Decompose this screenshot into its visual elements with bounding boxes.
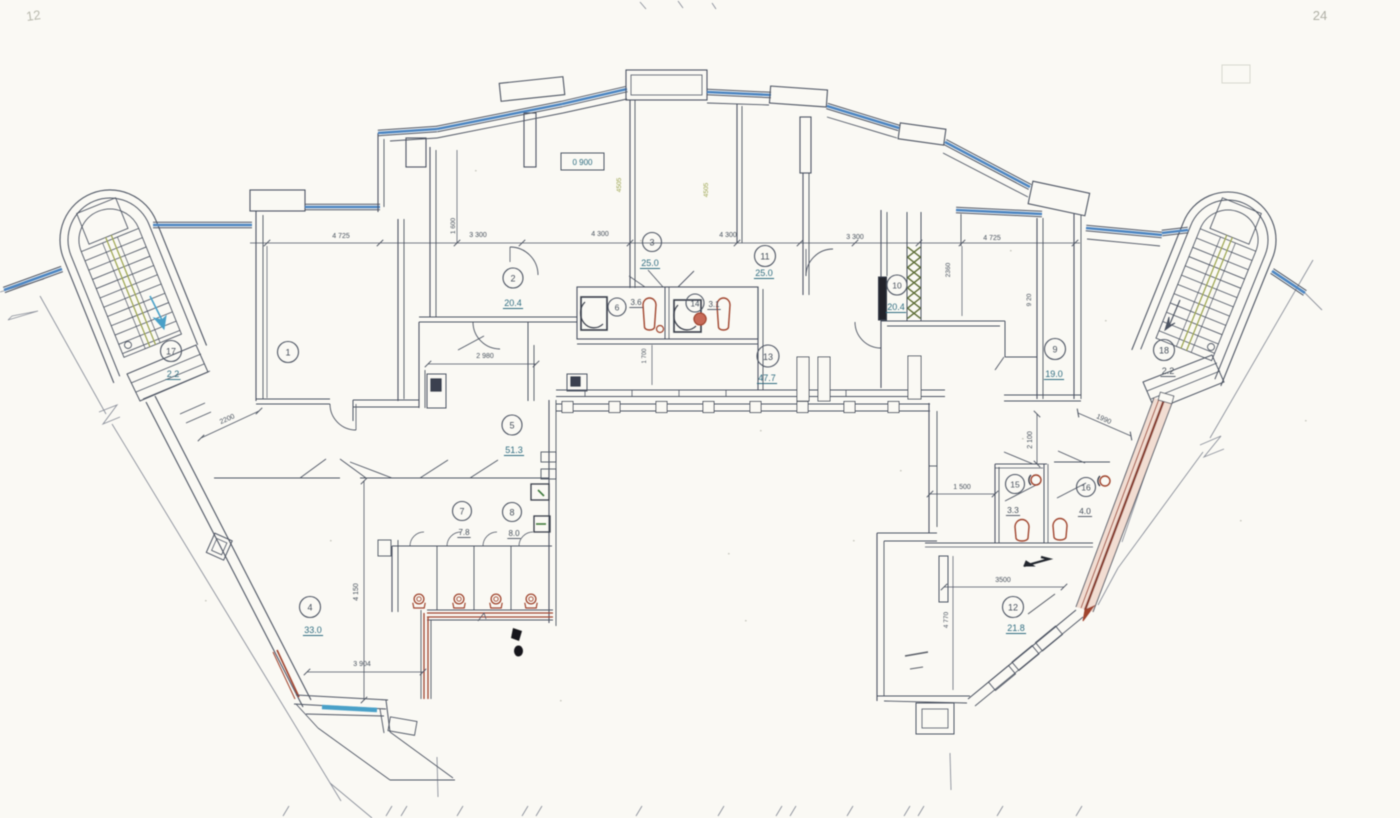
pencil water marks room 12 [905,652,928,656]
terrace lower line [330,783,372,818]
balcony box right slope 1 [769,86,827,107]
small stub right wing wall [929,465,937,467]
windows on diagonal wall [988,665,1015,690]
room circle 12 [1003,597,1024,618]
dim 2100 vertical [1036,414,1038,464]
blue band right of right stair [1271,273,1304,295]
right wing bottom wall [877,695,970,697]
svg-text:4 725: 4 725 [332,233,350,240]
roof slope right lower [944,144,1029,189]
svg-text:25.0: 25.0 [755,268,773,278]
leader below right porch [950,753,951,790]
corridor mullions lower band [562,402,573,413]
wall x432 [429,147,431,317]
svg-text:15: 15 [1010,480,1020,490]
room circle 8 [503,503,522,522]
svg-text:13: 13 [763,352,773,362]
left stair direction arrow [150,296,162,320]
pier rectangle left slope [406,138,426,167]
svg-text:3: 3 [649,238,654,248]
corridor tall pier pair [797,357,809,401]
svg-text:6: 6 [615,303,620,313]
svg-text:3 300: 3 300 [846,234,864,241]
dimension 2200 at walkway [201,411,259,438]
vertical dim 4150 [363,481,365,700]
box top-right [1028,181,1090,216]
room 4 top walls [214,477,340,479]
svg-text:33.0: 33.0 [304,625,322,635]
svg-text:20.4: 20.4 [887,302,905,312]
svg-text:3500: 3500 [995,577,1011,584]
svg-text:2.2: 2.2 [1162,366,1175,376]
svg-text:4 300: 4 300 [591,231,609,238]
toilet fixture [526,594,536,604]
room circle 3 [643,233,662,252]
wall x917 [906,212,908,321]
peak box [626,70,707,100]
svg-text:20.4: 20.4 [504,298,522,308]
balcony box right slope 2 [898,123,946,145]
terrace step box [388,717,417,735]
svg-text:8.0: 8.0 [508,529,520,538]
roof step up at x379 [377,133,379,212]
svg-text:14: 14 [691,300,700,309]
right walkway wall lines [1076,398,1154,607]
svg-text:16: 16 [1081,483,1091,493]
black symbol blob 1 [511,628,522,641]
bottom porch [916,703,954,734]
right stair direction arrow [1169,300,1180,326]
room circle 18 [1154,340,1175,361]
tilted box on wing wall [206,533,232,560]
black shaft fill [879,277,887,320]
corridor upper wall [556,389,945,391]
wall room1-room2 divider x400 [397,219,399,401]
door arc room 1 [330,404,356,430]
door arc room 10 lower [855,322,881,348]
stall door arcs [410,532,424,546]
svg-text:47.7: 47.7 [758,373,776,383]
svg-text:7: 7 [459,507,464,517]
right property line [1210,260,1313,438]
blue window strip [322,707,377,710]
room9 bottom wall [1004,394,1081,396]
wall x963 stub [960,214,962,246]
wall below room1 y400 [353,399,419,401]
door arc room 11 [806,249,833,276]
green cross hatch ventilation shaft [908,247,921,257]
small red fixture room 6 [657,326,664,333]
svg-text:4 770: 4 770 [943,611,950,628]
blue band stair-link left [153,227,252,229]
bottom dimension ticks [283,806,289,816]
svg-text:4505: 4505 [616,177,623,192]
toilet 15 [1015,520,1029,542]
room circle 5 [502,415,522,435]
arrow break far left [8,311,38,320]
dim 2980 [428,363,536,365]
short parallel line near right walkway [1122,402,1170,542]
svg-text:3 300: 3 300 [469,232,487,239]
svg-text:9 20: 9 20 [1026,293,1033,306]
door marks above bathroom [648,270,663,287]
terrace bottom wall with blue window [296,695,388,700]
svg-text:4.0: 4.0 [1079,506,1091,516]
wall below room2 x419 [418,322,420,408]
break mark on right property line [1200,436,1224,457]
svg-text:4 300: 4 300 [719,232,737,239]
step at room9 bottom left [1003,357,1005,395]
svg-text:21.8: 21.8 [1007,623,1025,633]
elevation box 0.900 [561,153,604,170]
pier x801 [800,117,811,173]
wc top wall 15 [995,463,1047,465]
roof slope right with blue [826,109,898,131]
toilet room 6 red [643,298,656,330]
tick on red wall [478,613,486,621]
duct box B4 left [427,374,446,408]
main dimension line [250,242,1080,244]
red vertical corridor wall [420,610,422,699]
svg-text:19.0: 19.0 [1045,369,1063,379]
roof band right end [1086,231,1162,238]
right wing step wall [877,532,937,534]
room circle 17 [161,341,182,362]
wall right of bathroom [757,287,759,390]
svg-text:5: 5 [509,421,514,431]
pilaster in room 12 [939,556,948,602]
wc doors diagonals [1004,452,1033,464]
room 12 top wall [925,542,1093,544]
left property line [40,296,106,414]
rooms 7-8 top walls [408,477,549,479]
svg-text:3.3: 3.3 [1007,505,1019,515]
toilet 16 [1053,519,1067,540]
stall left stub [378,540,391,556]
sink room 6 [581,297,607,330]
wc top wall 16 [1054,461,1110,463]
wall corner to room9 [1004,321,1006,357]
door arc room 2 top [510,247,538,275]
sink room 14 [674,300,701,332]
svg-text:17: 17 [166,347,176,357]
appliance boxes [531,484,549,500]
room 1 bottom wall [256,398,330,400]
wc divider [1043,464,1045,543]
room circle 9 [1045,339,1066,360]
room circle 13 [757,345,779,367]
svg-text:1 700: 1 700 [642,348,648,364]
right walkway band pink fill [1076,398,1172,612]
svg-text:4505: 4505 [703,182,710,197]
wall x805 lower [802,173,804,295]
wall x530 room5 left closet [527,322,529,401]
corridor pier right [908,356,921,399]
roof slope left with blue [378,132,437,136]
svg-text:1 600: 1 600 [450,217,457,234]
stall block outline [392,545,552,547]
dim 3500 [944,586,1064,588]
red sink 16 [1100,476,1110,486]
svg-text:25.0: 25.0 [641,258,659,268]
svg-text:3.6: 3.6 [630,298,642,307]
wall x1040 room9 left [1036,218,1038,399]
room 9 block top wall with blue [956,213,1042,217]
inner roof line left [390,138,437,141]
wc block left wall [994,464,996,543]
room circle 2 [503,268,523,288]
wall y322 below room10 [881,320,1005,322]
small red fixture room 14 [694,313,706,325]
svg-text:4 725: 4 725 [983,235,1001,242]
bathroom bottom wall [577,338,758,340]
svg-text:2.2: 2.2 [167,369,180,379]
blue link to right stair [1162,233,1188,236]
dim leader room9 to stair [1036,414,1038,464]
room circle 1 [278,342,299,363]
vertical dim 4150 room1 wall [266,246,268,398]
svg-text:18: 18 [1159,346,1169,356]
red double wall below stalls [427,609,553,611]
right stair start dot [1208,344,1215,351]
toilet room 14 red [717,298,730,330]
door leaf [458,336,484,350]
bathroom block outline [577,287,758,339]
corridor lower wall [556,403,930,405]
room circle 15 [1006,475,1025,494]
room circle 4 [300,597,321,618]
terrace right edge [386,700,390,732]
svg-text:12: 12 [25,7,41,24]
left vestibule exit steps [180,403,205,414]
blue band left edge [5,272,63,293]
wall x1077 room9 right [1073,213,1075,399]
left stair vestibule [127,345,208,401]
opening ticks on corridor upper [584,390,586,397]
break mark on left property line [99,405,120,424]
door arc room 2 bottom [473,322,500,349]
right wing west wall lower [876,533,878,701]
svg-text:7.8: 7.8 [458,528,470,537]
wing diagonal south-east wall [968,610,1076,699]
toilet fixture [414,594,424,604]
right stair tower [1132,178,1291,386]
left stair tower [45,175,207,383]
svg-text:1: 1 [285,348,290,358]
roof right of peak with blue [707,95,771,98]
svg-text:2360: 2360 [945,262,952,277]
toilet fixture [454,594,464,604]
top edge cut marks [640,2,646,9]
left vestibule steps [136,364,204,392]
right wall of rooms 5-8 block [548,400,550,623]
left stair treads [80,225,182,358]
svg-text:4: 4 [307,603,312,613]
vertical dim 4770 [952,556,954,690]
red arrowhead at walkway end [1083,606,1094,621]
dim 1990 diagonal [1078,413,1131,436]
room circle 11 [755,246,776,267]
wall x737 [736,104,738,243]
pencil arrow annotation room12 [1024,557,1049,566]
room circle 16 [1077,478,1096,497]
svg-text:2 100: 2 100 [1027,431,1034,449]
pencil diagonal near circle 12 [1028,594,1055,614]
room circle 10 [887,275,907,295]
right stair vestibule [1143,355,1224,410]
protruding box top-left corner [250,190,305,211]
svg-text:2200: 2200 [219,413,236,426]
dim 1500 [930,493,995,495]
left stair start dot [125,342,132,349]
svg-text:0 900: 0 900 [572,158,593,167]
svg-text:1 500: 1 500 [953,484,971,491]
svg-text:2 980: 2 980 [476,353,494,360]
room circle 14 [686,294,704,312]
room 2 bottom wall [419,316,577,318]
door leaves room 4 [300,459,326,478]
svg-text:10: 10 [892,281,902,291]
svg-text:3 904: 3 904 [353,661,371,668]
svg-text:2: 2 [510,274,515,284]
svg-text:9: 9 [1052,345,1057,355]
terrace diagonal walls [318,728,390,780]
room circle 6 [608,298,626,316]
right wing west wall upper [928,403,930,533]
left walkway / wing wall [146,402,303,707]
scan specks [728,553,730,554]
wall left edge of main block [255,211,257,401]
roof wall left segment with blue [305,209,380,211]
red accent on left wing wall [277,650,299,697]
right stair treads [1156,225,1257,361]
bathroom divider wall [664,287,666,339]
svg-text:12: 12 [1008,603,1018,613]
room circle 7 [453,502,472,521]
white door box on walkway top [1158,392,1174,404]
svg-text:8: 8 [509,508,514,518]
svg-text:24: 24 [1313,8,1327,23]
pier x524 [524,113,536,167]
stall dividers [436,546,438,610]
wall x630 [629,100,631,288]
wall x883 with shaft [880,210,882,388]
leader below terrace [437,757,438,797]
svg-text:4 150: 4 150 [353,583,360,601]
duct box B4 right [567,374,587,391]
svg-text:51.3: 51.3 [505,445,523,455]
svg-text:3.1: 3.1 [708,300,720,309]
dim 3904 [307,671,423,673]
red sink 15 [1031,475,1041,485]
balcony box on left slope [499,77,565,102]
toilet fixture [491,594,501,604]
svg-text:11: 11 [760,252,769,262]
black symbol blob 2 [514,646,523,657]
door leaves above 7 and 8 [420,460,448,478]
stub rects on wall [541,452,556,462]
